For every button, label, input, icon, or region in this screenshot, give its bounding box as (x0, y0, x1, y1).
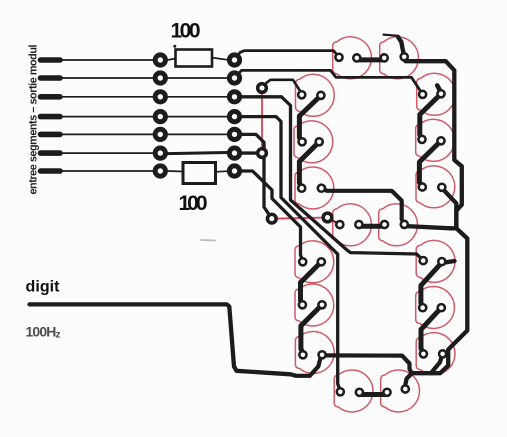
trace segment-b output to right rail (442, 188, 457, 226)
pad row1 left (153, 52, 168, 67)
pad LED B3 right (pin 2) (437, 182, 447, 192)
LED cell E3 outline (lower-left segment) (295, 332, 334, 374)
stray grey dash (201, 239, 215, 242)
LED cell B1 outline (upper-right segment) (417, 73, 456, 115)
wire jumper J2 right pad to segment-g input (328, 218, 340, 225)
wire input stub row7 (41, 168, 61, 174)
wire resistor R2 to row7 right pad (216, 170, 228, 173)
pad LED D2 right (pin 2) (400, 384, 410, 394)
trace segment-c output to bottom junction (431, 354, 443, 373)
wire row5 left pad to right pad (168, 133, 228, 135)
pad LED F1 right (pin 2) (316, 91, 326, 101)
pad jumper J1 top (256, 82, 268, 94)
pad LED G2 left (pin 1) (380, 220, 390, 230)
wire row1 stub to left pad (60, 59, 154, 61)
pad LED C2 left (pin 1) (418, 303, 428, 313)
wire input stub row5 (41, 132, 61, 138)
red jumper wire J1 (row6 to segment-f input) (261, 88, 263, 153)
pad LED B1 right (pin 2) (436, 89, 446, 99)
pad LED A2 left (pin 1) (379, 53, 389, 63)
pad row5 right (227, 127, 242, 142)
LED cell E1 outline (lower-left segment) (295, 241, 334, 283)
pad row4 right (227, 109, 242, 124)
trace segment-c link C2-C3 (421, 308, 441, 354)
LED cell C3 outline (lower-right segment) (416, 333, 455, 375)
trace segment-b flag stub on B1 (437, 85, 441, 92)
wire digit common trace (30, 304, 297, 375)
wire row7 stub to left pad (60, 170, 154, 172)
pad LED C2 right (pin 2) (436, 303, 446, 313)
pad row7 right (227, 163, 242, 178)
pad LED A2 right (pin 2) (399, 52, 409, 62)
trace segment-e link E2-E3 (301, 305, 322, 353)
LED cell F2 outline (upper-left segment) (294, 121, 333, 163)
trace segment-b link B2-B3 (419, 141, 441, 187)
trace segment-a stub thin tail (384, 35, 399, 36)
wire row2 left pad to right pad (168, 77, 228, 79)
pad row5 left (153, 127, 168, 142)
LED cell D1 outline (bottom segment, left) (334, 370, 373, 412)
wire row3 left pad to right pad (168, 96, 228, 98)
wire row2 to segment-b input (235, 70, 423, 94)
trace segment-b link B1-B2 (420, 94, 441, 140)
trace segment-f link F1-F2 (299, 95, 321, 141)
pad jumper J2 left (266, 213, 278, 225)
pad row4 left (153, 109, 168, 124)
resistor R2 (100 ohm) (183, 163, 216, 184)
pad LED C3 left (pin 1) (419, 349, 429, 359)
pad row3 left (153, 89, 168, 104)
trace segment-a output to right rail (404, 58, 462, 228)
pad LED F3 left (pin 1) (297, 183, 307, 193)
LED cell D2 outline (bottom segment, right) (381, 370, 420, 412)
wire row7 left pad to resistor R2 (168, 170, 184, 173)
LED cell F1 outline (upper-left segment) (296, 74, 335, 116)
svg-text:digit: digit (26, 279, 61, 296)
trace segment-g output / common right rail (404, 226, 467, 389)
wire row6 stub to left pad (60, 152, 154, 154)
pad LED E1 left (pin 1) (298, 257, 308, 267)
pad LED C1 left (pin 1) (418, 256, 428, 266)
pad LED E1 right (pin 2) (316, 257, 326, 267)
LED cell B3 outline (upper-right segment) (416, 166, 455, 208)
trace segment-c input stub into C1 (442, 261, 455, 263)
pad LED F2 left (pin 1) (297, 137, 307, 147)
resistor R1 (100 ohm) (176, 50, 213, 67)
trace segment-f link F2-F3 (299, 142, 319, 188)
pad LED C3 right (pin 2) (438, 349, 448, 359)
svg-text:100: 100 (171, 20, 201, 43)
pad LED D2 left (pin 1) (382, 387, 392, 397)
trace segment-e output long horizontal to bottom-right junction (322, 355, 412, 373)
LED cell C2 outline (lower-right segment) (416, 287, 455, 329)
LED cell A2 outline (top segment, right) (380, 37, 419, 79)
pad LED F1 left (pin 1) (297, 90, 307, 100)
wire row6 left pad to right pad (thick) (168, 153, 228, 154)
LED cell G1 outline (middle segment, left) (333, 204, 372, 246)
pad LED G2 right (pin 2) (399, 220, 409, 230)
pad LED B2 right (pin 2) (436, 136, 446, 146)
pad jumper J1 bottom (256, 147, 268, 159)
pad LED D1 right (pin 2) (355, 387, 365, 397)
pad LED E3 right (pin 2) (317, 350, 327, 360)
wire row6 to jumper J1 bottom pad (235, 151, 263, 154)
pad row6 left (153, 146, 168, 161)
pad LED F3 right (pin 2) (317, 183, 327, 193)
pad LED D1 left (pin 1) (335, 387, 345, 397)
pad LED E2 right (pin 2) (317, 300, 327, 310)
trace segment-a link bar A1-A2 (357, 57, 385, 62)
wire input stub row2 (41, 75, 61, 81)
wire row5 to jumper J2 left pad (235, 134, 272, 218)
trace digit common link to E3 right pad (296, 357, 321, 376)
wire jumper J1 top pad to segment-f input (262, 80, 302, 94)
trace segment-a output stub from A2 (398, 37, 404, 57)
wire resistor R1 to row1 right pad (212, 58, 228, 60)
pad LED E3 left (pin 1) (298, 350, 308, 360)
wire row4 to segment-d input (235, 117, 341, 391)
wire row4 stub to left pad (60, 116, 154, 118)
LED cell B2 outline (upper-right segment) (416, 119, 455, 161)
pad LED B2 left (pin 1) (417, 135, 427, 145)
wire input stub row1 (41, 57, 61, 63)
trace segment-g link bar G1-G2 (359, 224, 385, 229)
pad LED C1 right (pin 2) (437, 257, 447, 267)
pad row7 left (153, 163, 168, 178)
pad LED A1 left (pin 1) (334, 52, 344, 62)
pad LED F2 right (pin 2) (314, 137, 324, 147)
pad row2 left (153, 70, 168, 85)
trace segment-f output to node G2 (321, 188, 404, 224)
wire input stub row3 (41, 94, 61, 100)
pad row6 right (227, 146, 242, 161)
wire row2 stub to left pad (60, 77, 154, 79)
wire row3 to segment-c input (235, 97, 424, 260)
pad LED G1 right (pin 2) (354, 220, 364, 230)
pad jumper J2 right (321, 211, 333, 223)
pad row2 right (227, 70, 242, 85)
pad LED B1 left (pin 1) (418, 90, 428, 100)
wire row1 left pad to resistor R1 (168, 59, 176, 61)
wire row4 left pad to right pad (168, 116, 228, 118)
trace segment-d link bar D1-D2 (359, 392, 387, 397)
wire row7 to segment-e input (235, 171, 303, 261)
pad LED E2 left (pin 1) (298, 300, 308, 310)
svg-text:100: 100 (179, 192, 208, 215)
wire row1 to segment-a input (235, 51, 340, 60)
pad row1 right (227, 52, 242, 67)
pad LED G1 left (pin 1) (335, 220, 345, 230)
trace segment-c link C1-C2 (421, 263, 442, 308)
svg-text:entree segments – sortie modul: entree segments – sortie modul (28, 45, 40, 195)
wire row3 stub to left pad (60, 96, 154, 98)
wire input stub row4 (41, 114, 61, 120)
pad LED A1 right (pin 2) (352, 53, 362, 63)
red jumper wire J2 (row5 to segment-g input) (272, 218, 328, 219)
trace segment-e link E1-E2 (301, 262, 322, 305)
LED cell C1 outline (lower-right segment) (416, 240, 455, 282)
svg-text:100Hz: 100Hz (26, 324, 61, 341)
solder dot above resistor R1 (173, 45, 176, 48)
wire row5 stub to left pad (60, 133, 154, 135)
pad row3 right (227, 89, 242, 104)
LED cell F3 outline (upper-left segment) (295, 167, 334, 209)
LED cell G2 outline (middle segment, right) (379, 204, 418, 246)
wire input stub row6 (41, 150, 61, 156)
LED cell E2 outline (lower-left segment) (295, 284, 334, 326)
pad LED B3 left (pin 1) (417, 182, 427, 192)
LED cell A1 outline (top segment, left) (333, 37, 372, 79)
